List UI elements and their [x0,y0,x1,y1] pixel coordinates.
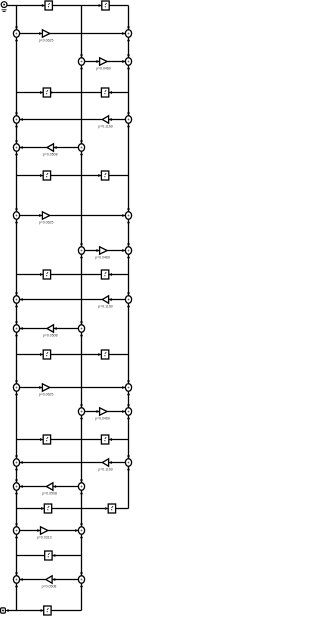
svg-text:p=0.0508: p=0.0508 [43,334,58,338]
svg-text:p=0.0469: p=0.0469 [95,417,110,421]
svg-text:p=0.0625: p=0.0625 [39,221,54,225]
svg-text:p=0.0625: p=0.0625 [39,39,54,43]
svg-text:p=0.0508: p=0.0508 [42,492,57,496]
svg-text:p=0.1169: p=0.1169 [98,468,112,472]
svg-text:p=0.1169: p=0.1169 [98,125,112,129]
svg-text:p=0.0469: p=0.0469 [96,67,111,71]
svg-text:p=0.0313: p=0.0313 [37,536,52,540]
svg-text:p=0.0625: p=0.0625 [39,393,54,397]
svg-text:p=0.0508: p=0.0508 [43,153,58,157]
svg-text:p=0.0508: p=0.0508 [42,585,57,589]
svg-text:p=0.1169: p=0.1169 [98,305,112,309]
svg-text:p=0.0469: p=0.0469 [95,256,110,260]
